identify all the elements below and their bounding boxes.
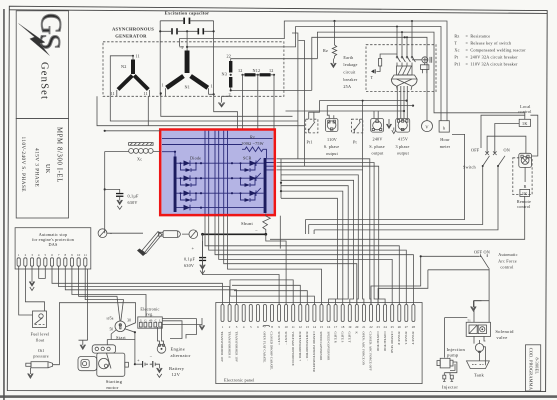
- winding N2 right diagonal: [134, 76, 148, 90]
- svg-text:N12: N12: [253, 68, 261, 73]
- wire cap row2: [160, 30, 213, 32]
- wire cap top left: [160, 20, 213, 22]
- svg-text:100Ω ~75W: 100Ω ~75W: [241, 141, 264, 146]
- svg-text:ON: ON: [504, 148, 510, 153]
- svg-text:Xc: Xc: [137, 157, 142, 162]
- svg-text:=: =: [466, 33, 469, 38]
- tank: [467, 361, 490, 369]
- socket 110V output: [326, 119, 338, 132]
- diode D2 row: [177, 177, 264, 179]
- svg-text:float: float: [36, 338, 45, 343]
- shunt heavy wire: [203, 233, 266, 235]
- svg-text:Engine: Engine: [171, 347, 186, 352]
- ground in solenoid branch: [471, 301, 482, 312]
- wire top bus T3: [317, 32, 524, 115]
- svg-text:st/5a: st/5a: [107, 317, 114, 321]
- svg-text:30: 30: [127, 319, 131, 323]
- fuse holder: [159, 232, 164, 236]
- svg-text:control: control: [500, 264, 514, 269]
- engine alternator: [157, 345, 166, 354]
- winding N1 right diagonal: [191, 76, 208, 88]
- svg-text:SHUNT −: SHUNT −: [284, 332, 288, 346]
- svg-text:R: R: [524, 184, 527, 189]
- svg-text:TRANSFORMER 19V: TRANSFORMER 19V: [234, 332, 238, 363]
- svg-text:OFF ON: OFF ON: [474, 250, 490, 255]
- svg-text:+: +: [192, 246, 195, 251]
- cod programma box: [526, 345, 541, 391]
- svg-text:51: 51: [468, 318, 472, 322]
- wire left bus entry: [162, 152, 175, 157]
- svg-text:UK: UK: [44, 164, 50, 174]
- SCR S2a loop: [241, 178, 256, 185]
- svg-text:Fuel level: Fuel level: [31, 332, 50, 337]
- svg-text:25A: 25A: [343, 84, 351, 89]
- wire 1K top bracket: [481, 115, 525, 148]
- svg-text:415V 3 PHASE: 415V 3 PHASE: [34, 148, 40, 187]
- svg-text:+B: +B: [149, 318, 153, 322]
- svg-text:10: 10: [77, 253, 81, 257]
- resistor in breaker: [379, 59, 382, 67]
- hour meter h: [439, 121, 449, 132]
- svg-text:Pt1: Pt1: [307, 140, 313, 145]
- svg-text:13: 13: [306, 325, 310, 329]
- wire contactor feeds: [397, 21, 412, 57]
- svg-text:19: 19: [348, 325, 352, 329]
- svg-text:circuit: circuit: [343, 70, 356, 75]
- svg-text:N2: N2: [121, 64, 127, 69]
- indicator circle-plus: [422, 57, 428, 63]
- wires reg to alternator: [158, 327, 164, 345]
- svg-text:OFF: OFF: [471, 148, 480, 153]
- svg-text:GATE R: GATE R: [333, 332, 337, 344]
- lightning bolt: [19, 24, 50, 56]
- svg-text:pressure: pressure: [33, 353, 49, 358]
- svg-text:CENTRE POTENTIOMETER: CENTRE POTENTIOMETER: [312, 332, 316, 373]
- engine ground brush: [107, 232, 143, 234]
- wires phase feeds down to socket row: [292, 33, 305, 166]
- highlight overlay fill: [162, 131, 274, 214]
- ground right of reg: [162, 318, 205, 330]
- svg-text:Xc: Xc: [454, 48, 459, 53]
- SCR S1a loop: [241, 163, 256, 170]
- svg-text:PHASE T: PHASE T: [411, 332, 415, 345]
- svg-text:GenSet: GenSet: [39, 62, 50, 100]
- resistor R remote: [524, 167, 526, 182]
- electronic panel box: [216, 303, 422, 384]
- winding N2 left diagonal: [118, 76, 132, 90]
- switch feed wires: [487, 136, 526, 153]
- title panel box: [16, 119, 68, 219]
- svg-text:15: 15: [320, 325, 324, 329]
- svg-text:11: 11: [111, 91, 115, 96]
- svg-text:630V: 630V: [128, 200, 138, 205]
- arrow below Rz: [331, 59, 337, 68]
- svg-text:−: −: [110, 232, 113, 237]
- svg-text:−: −: [150, 355, 153, 360]
- svg-text:240V: 240V: [372, 137, 382, 142]
- svg-text:Hour: Hour: [440, 137, 450, 142]
- capacitor C-left row2: [171, 28, 173, 34]
- svg-text:MPM 8/300 I-EL: MPM 8/300 I-EL: [56, 127, 63, 183]
- wire stubs right bus exit: [267, 159, 277, 170]
- ground left of motor: [79, 340, 88, 349]
- svg-text:16: 16: [327, 325, 331, 329]
- svg-text:Injection: Injection: [447, 347, 466, 352]
- svg-text:28: 28: [412, 325, 416, 329]
- svg-text:OPEN FLAT CARATE.: OPEN FLAT CARATE.: [263, 332, 267, 364]
- contactor output funnel: [397, 86, 413, 90]
- svg-text:L: L: [159, 318, 161, 322]
- fuel lamp: [475, 344, 483, 352]
- svg-text:10: 10: [285, 325, 289, 329]
- generator dashed enclosure: [103, 42, 284, 97]
- wire nest rectifier-to-panel: [277, 159, 386, 305]
- svg-text:11: 11: [144, 91, 148, 96]
- switch blades: [483, 156, 505, 166]
- wire key to solenoid: [107, 330, 135, 345]
- wire top bus T1: [180, 21, 448, 121]
- svg-text:22: 22: [369, 325, 373, 329]
- svg-text:Earth: Earth: [343, 55, 354, 60]
- svg-text:POTENTIOMETER +: POTENTIOMETER +: [298, 332, 302, 362]
- wires left runs to panel: [230, 280, 314, 305]
- diode D2a loop: [181, 178, 197, 185]
- svg-text:630V: 630V: [184, 263, 194, 268]
- SCR S3: [250, 190, 257, 196]
- wire N1 ends: [166, 88, 214, 96]
- svg-text:T: T: [371, 75, 374, 80]
- svg-text:110V-240V S. PHASE: 110V-240V S. PHASE: [20, 137, 26, 193]
- SCR S3a loop: [241, 193, 256, 200]
- svg-text:motor: motor: [106, 385, 118, 390]
- wires arc force runs: [371, 256, 480, 304]
- rectifier right bus bar: [264, 158, 267, 213]
- svg-text:+: +: [137, 358, 140, 363]
- svg-text:3 phase: 3 phase: [395, 144, 409, 149]
- svg-text:18: 18: [341, 325, 345, 329]
- svg-text:Electronic panel: Electronic panel: [224, 378, 255, 383]
- svg-text:1K: 1K: [522, 191, 528, 196]
- breaker Pt: [352, 119, 363, 133]
- svg-text:Resistance: Resistance: [470, 33, 490, 38]
- svg-text:Start: Start: [116, 335, 126, 340]
- svg-text:VOLTAGE REFERENCE: VOLTAGE REFERENCE: [291, 332, 295, 366]
- fuel level float box: [33, 311, 47, 328]
- svg-text:11: 11: [292, 325, 295, 329]
- socket 240V output: [371, 119, 384, 133]
- svg-text:Rz: Rz: [323, 48, 328, 53]
- svg-text:=: =: [466, 54, 469, 59]
- svg-text:SPEED GOVERNOR: SPEED GOVERNOR: [319, 332, 323, 362]
- svg-text:TRANSFORMER 0: TRANSFORMER 0: [227, 332, 231, 359]
- svg-text:GATE T: GATE T: [348, 332, 352, 343]
- svg-text:CONTACTOR: CONTACTOR: [376, 332, 380, 352]
- svg-text:C: C: [155, 318, 157, 322]
- svg-text:breaker: breaker: [343, 77, 357, 82]
- svg-text:12: 12: [238, 68, 243, 73]
- wire contactor drop to nest: [362, 101, 364, 170]
- svg-text:S. phase: S. phase: [369, 144, 385, 149]
- wires generator left drops: [97, 96, 305, 125]
- reactor Xc coils: [129, 149, 134, 154]
- svg-text:Excitation capacitor: Excitation capacitor: [165, 11, 210, 16]
- svg-text:12V: 12V: [172, 372, 181, 377]
- SCR S1: [250, 160, 257, 166]
- contactor K1 contacts: [396, 56, 415, 66]
- svg-text:12: 12: [299, 325, 303, 329]
- svg-text:25: 25: [391, 325, 395, 329]
- key switch Start: [115, 321, 126, 332]
- border frame inner top line: [9, 10, 547, 14]
- svg-text:−: −: [255, 229, 258, 234]
- starting motor solenoid: [92, 345, 115, 353]
- rectifier left bus bar: [174, 157, 177, 213]
- capacitor C-right row2: [198, 28, 200, 34]
- svg-text:CLOSED DROOP CARATE.: CLOSED DROOP CARATE.: [270, 332, 274, 371]
- svg-text:20: 20: [355, 325, 359, 329]
- svg-text:COD. PROGRAMMA: COD. PROGRAMMA: [529, 348, 534, 391]
- svg-text:1: 1: [162, 83, 164, 88]
- auto-stop terminals 1-11: [17, 258, 87, 266]
- svg-text:SCR: SCR: [243, 156, 252, 161]
- svg-text:Pt1: Pt1: [454, 61, 460, 66]
- wires contactor to 415V socket: [397, 86, 407, 119]
- svg-text:Arc Force: Arc Force: [498, 258, 517, 263]
- svg-text:V: V: [425, 124, 429, 129]
- wire N2 top: [110, 56, 133, 97]
- svg-text:110V: 110V: [327, 137, 337, 142]
- svg-text:=: =: [466, 40, 469, 45]
- wire shunt plus to panel: [203, 241, 280, 305]
- earth leakage dashed box: [366, 45, 436, 92]
- svg-text:110V 32A circuit breaker: 110V 32A circuit breaker: [470, 61, 518, 66]
- svg-text:=: =: [466, 61, 469, 66]
- diode D3a loop: [181, 193, 197, 200]
- ground near 415V: [386, 119, 391, 128]
- svg-text:output: output: [397, 151, 410, 156]
- svg-text:CONTACTOR: CONTACTOR: [383, 332, 387, 352]
- wire key to battery: [124, 329, 135, 365]
- svg-text:Automatic: Automatic: [498, 252, 517, 257]
- svg-text:leakage: leakage: [343, 62, 357, 67]
- GS logo: [19, 13, 68, 56]
- voltmeter V: [422, 121, 433, 132]
- contactor coil: [397, 66, 413, 75]
- wire 12 bars links: [243, 74, 275, 76]
- capacitor 0.1uF no.1: [105, 189, 120, 193]
- svg-text:22: 22: [227, 54, 232, 59]
- scan shadow bottom edge: [0, 395, 557, 398]
- wire phase-1 down: [214, 94, 238, 129]
- svg-text:Injector: Injector: [442, 384, 459, 389]
- wire shunt minus to panel: [266, 234, 286, 304]
- wires rectifier bottom to panel: [205, 216, 399, 305]
- svg-text:OPEN: ARC FORCE ON: OPEN: ARC FORCE ON: [362, 332, 366, 366]
- svg-text:DAS: DAS: [49, 242, 58, 247]
- winding N1 left diagonal: [167, 76, 184, 88]
- svg-text:CENTRE STAR: CENTRE STAR: [390, 332, 394, 354]
- svg-text:12: 12: [269, 68, 274, 73]
- panel terminals 1-28: [221, 305, 415, 322]
- wire N2 ends down: [117, 90, 150, 96]
- wire 22 to right: [231, 59, 318, 61]
- tie bracket terminals 7-8: [263, 326, 269, 327]
- svg-text:control: control: [518, 109, 532, 114]
- logo panel box: [16, 11, 68, 119]
- svg-text:h: h: [443, 125, 446, 130]
- svg-text:1K: 1K: [522, 121, 528, 126]
- remote socket: [519, 153, 532, 167]
- disconnect circle right: [189, 230, 198, 239]
- aux contact box: [421, 65, 429, 70]
- winding N2 vertical bar: [131, 60, 135, 75]
- socket 415V output: [396, 119, 410, 133]
- wires switch runs: [306, 134, 465, 219]
- svg-text:meter: meter: [440, 144, 451, 149]
- wire from contactor left: [309, 101, 407, 120]
- wire excitation box sides: [160, 21, 213, 96]
- solenoid valve wires: [474, 270, 489, 323]
- wire top bus T4: [312, 37, 427, 120]
- svg-text:8-300EL: 8-300EL: [535, 358, 540, 375]
- svg-text:27: 27: [405, 325, 409, 329]
- svg-text:N3: N3: [222, 72, 228, 77]
- svg-text:Solenoid: Solenoid: [495, 329, 514, 334]
- svg-text:11: 11: [136, 54, 140, 59]
- junction node: [201, 233, 204, 236]
- svg-text:Diode: Diode: [190, 156, 201, 161]
- automatic stop box: [15, 228, 91, 269]
- svg-text:N1: N1: [185, 85, 191, 90]
- starting motor body: [97, 353, 125, 376]
- svg-text:TRANSFORMER 19V: TRANSFORMER 19V: [220, 332, 224, 363]
- svg-text:PHASE S: PHASE S: [404, 332, 408, 345]
- svg-text:Starting: Starting: [106, 379, 123, 384]
- svg-text:23: 23: [377, 325, 381, 329]
- svg-text:Rz: Rz: [250, 135, 255, 140]
- legend: [454, 33, 526, 66]
- valve legs: [474, 336, 485, 343]
- capacitor 0.1uF no.2: [202, 234, 204, 257]
- wire top bus T2: [187, 27, 441, 121]
- junction dots row2: [159, 30, 161, 32]
- resistor 1K local: [519, 119, 530, 126]
- svg-text:ASYNCHRONOUS: ASYNCHRONOUS: [112, 27, 154, 32]
- wire N1 riser: [186, 31, 188, 50]
- resistor 1K remote: [520, 189, 530, 196]
- svg-text:24: 24: [384, 325, 388, 329]
- svg-text:POTENTIOMETER −: POTENTIOMETER −: [305, 332, 309, 362]
- remote control dashed box: [513, 158, 532, 195]
- svg-text:Compensated welding reactor: Compensated welding reactor: [470, 48, 526, 53]
- svg-text:240V 32A circuit breaker: 240V 32A circuit breaker: [470, 54, 518, 59]
- svg-text:control: control: [517, 204, 531, 209]
- ground below 2: [218, 96, 230, 107]
- injectors: [444, 373, 450, 376]
- svg-text:17: 17: [334, 325, 338, 329]
- panel terminal labels: [220, 332, 415, 373]
- wire 2 to right: [231, 88, 312, 91]
- svg-text:Release key of switch: Release key of switch: [470, 40, 512, 45]
- svg-text:Tank: Tank: [474, 373, 485, 378]
- svg-text:Switch: Switch: [463, 165, 477, 170]
- svg-text:14: 14: [313, 325, 317, 329]
- wires gate/aux through rectifier: [205, 131, 228, 216]
- svg-text:reg.: reg.: [146, 312, 153, 317]
- svg-text:26: 26: [398, 325, 402, 329]
- svg-text:Battery: Battery: [169, 366, 185, 371]
- svg-text:G: G: [35, 13, 68, 35]
- svg-text:T: T: [454, 40, 457, 45]
- oil pressure sensor: [26, 363, 31, 366]
- wire rectifier top runs: [162, 138, 273, 144]
- svg-text:1: 1: [211, 84, 213, 89]
- wire autostop to motor ground: [87, 269, 89, 340]
- capacitor C-top: [183, 18, 185, 24]
- reactor Xc core: [129, 143, 154, 146]
- starting motor drive end: [78, 357, 97, 371]
- breaker Pt1: [306, 119, 318, 133]
- wire phase from N1 left end: [161, 93, 293, 116]
- svg-text:415V: 415V: [398, 137, 408, 142]
- svg-text:Pt: Pt: [454, 54, 459, 59]
- solenoid valve body: [466, 322, 490, 336]
- wire Rz drop: [334, 21, 336, 45]
- svg-text:pump: pump: [447, 352, 459, 357]
- scan shadow left edge: [3, 9, 5, 400]
- svg-text:SPEED GOVERNOR: SPEED GOVERNOR: [326, 332, 330, 362]
- diode D3 row: [177, 192, 264, 194]
- contactor base trapezoid: [392, 75, 418, 79]
- wire left riser: [104, 152, 106, 234]
- shunt element: [263, 214, 271, 235]
- wires 12/N12/12 down to rectifier: [243, 75, 275, 129]
- svg-text:SHUNT +: SHUNT +: [277, 332, 281, 346]
- diode D1 row: [177, 162, 264, 164]
- svg-text:Pt: Pt: [353, 140, 358, 145]
- wire Xc leads: [105, 151, 161, 153]
- svg-text:50: 50: [110, 328, 114, 332]
- svg-text:GATE S: GATE S: [340, 332, 344, 343]
- release key T: [371, 69, 375, 73]
- wires auto-stop terminals: [19, 266, 33, 315]
- disconnect circle left: [98, 229, 107, 238]
- svg-text:=: =: [466, 48, 469, 53]
- svg-text:CLOSED: ARC FORCE OFF: CLOSED: ARC FORCE OFF: [369, 332, 373, 371]
- svg-text:GENERATOR: GENERATOR: [115, 34, 147, 39]
- svg-text:Shunt: Shunt: [241, 221, 253, 226]
- wire long remote-control run: [270, 196, 525, 239]
- svg-text:PHASE R: PHASE R: [397, 332, 401, 346]
- diode D1a loop: [181, 163, 197, 170]
- svg-text:valve: valve: [496, 335, 507, 340]
- svg-text:Oil: Oil: [38, 348, 45, 353]
- svg-text:output: output: [326, 151, 339, 156]
- SCR S2: [250, 175, 257, 181]
- svg-text:Rz: Rz: [454, 33, 459, 38]
- winding N1 vertical bar: [185, 51, 190, 74]
- svg-text:S. phase: S. phase: [324, 144, 340, 149]
- selection red border: [160, 130, 275, 216]
- svg-text:21: 21: [362, 325, 366, 329]
- svg-text:11: 11: [84, 253, 87, 257]
- svg-text:output: output: [372, 151, 385, 156]
- svg-text:alternator: alternator: [171, 353, 191, 358]
- diode D4 row: [177, 207, 264, 209]
